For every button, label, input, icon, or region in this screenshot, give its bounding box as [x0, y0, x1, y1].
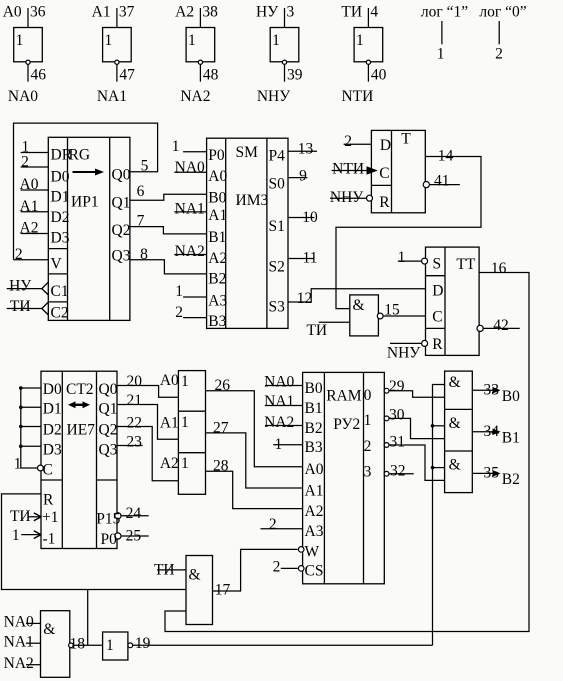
svg-text:1: 1 [356, 32, 364, 49]
svg-text:ТИ: ТИ [306, 322, 327, 339]
svg-text:A0: A0 [305, 461, 324, 478]
svg-text:21: 21 [127, 392, 143, 409]
svg-text:B2: B2 [208, 270, 226, 287]
svg-text:30: 30 [389, 407, 405, 424]
svg-text:P0: P0 [101, 531, 118, 548]
svg-text:A0: A0 [160, 372, 179, 389]
svg-text:B3: B3 [305, 439, 323, 456]
svg-text:NA0: NA0 [264, 373, 294, 390]
svg-text:S1: S1 [269, 218, 285, 235]
svg-text:C1: C1 [51, 283, 69, 300]
svg-text:ТИ: ТИ [10, 508, 31, 525]
svg-text:NA2: NA2 [175, 243, 205, 260]
svg-text:лог “0”: лог “0” [479, 3, 526, 20]
svg-text:&: & [449, 415, 461, 432]
svg-text:6: 6 [137, 183, 145, 200]
svg-text:P4: P4 [269, 147, 286, 164]
svg-text:1: 1 [398, 249, 406, 266]
svg-text:НУ: НУ [9, 278, 31, 295]
svg-text:ТИ: ТИ [341, 3, 362, 20]
svg-text:A2: A2 [208, 250, 227, 267]
svg-text:A2: A2 [305, 503, 324, 520]
svg-text:A2: A2 [160, 455, 179, 472]
svg-text:2: 2 [15, 246, 23, 263]
svg-text:A1: A1 [160, 415, 179, 432]
svg-text:НУ: НУ [256, 3, 278, 20]
svg-text:&: & [188, 566, 200, 583]
svg-text:1: 1 [106, 637, 114, 654]
svg-text:8: 8 [140, 246, 148, 263]
svg-text:1: 1 [12, 527, 20, 544]
svg-text:СТ2: СТ2 [66, 381, 94, 398]
svg-text:S0: S0 [269, 176, 286, 193]
svg-text:NA0: NA0 [4, 613, 34, 630]
svg-text:D: D [432, 282, 443, 299]
svg-text:37: 37 [119, 3, 135, 20]
svg-text:1: 1 [105, 32, 113, 49]
svg-text:1: 1 [364, 412, 372, 429]
svg-text:2: 2 [175, 304, 183, 321]
svg-text:S: S [433, 255, 442, 272]
svg-text:A0: A0 [3, 3, 22, 20]
svg-text:26: 26 [215, 377, 231, 394]
svg-text:V: V [51, 256, 63, 273]
svg-text:41: 41 [434, 172, 450, 189]
svg-text:A0: A0 [208, 168, 227, 185]
svg-text:D2: D2 [51, 209, 70, 226]
svg-text:P0: P0 [208, 147, 225, 164]
svg-text:Q0: Q0 [99, 381, 118, 398]
svg-text:&: & [449, 457, 461, 474]
svg-text:1: 1 [172, 138, 180, 155]
svg-text:Q1: Q1 [99, 400, 118, 417]
svg-text:15: 15 [384, 302, 400, 319]
svg-text:NA1: NA1 [97, 88, 127, 105]
svg-text:A1: A1 [92, 3, 111, 20]
svg-text:11: 11 [303, 249, 318, 266]
svg-text:ИМ3: ИМ3 [236, 192, 269, 209]
svg-text:B0: B0 [305, 380, 323, 397]
svg-text:D3: D3 [51, 230, 70, 247]
svg-text:W: W [305, 544, 320, 561]
svg-text:Q2: Q2 [99, 422, 118, 439]
svg-text:25: 25 [126, 528, 142, 545]
svg-text:20: 20 [127, 373, 143, 390]
svg-text:10: 10 [302, 209, 318, 226]
svg-text:46: 46 [31, 67, 47, 84]
svg-text:A1: A1 [208, 207, 227, 224]
svg-text:18: 18 [70, 636, 86, 653]
svg-text:1: 1 [181, 373, 189, 390]
svg-text:РУ2: РУ2 [333, 416, 360, 433]
svg-text:NНУ: NНУ [387, 345, 420, 362]
svg-text:ТИ: ТИ [154, 561, 175, 578]
svg-text:17: 17 [215, 581, 231, 598]
svg-text:B1: B1 [502, 430, 520, 447]
svg-text:13: 13 [298, 140, 314, 157]
svg-text:1: 1 [181, 414, 189, 431]
svg-text:B0: B0 [502, 388, 520, 405]
svg-text:A3: A3 [208, 292, 227, 309]
svg-text:P15: P15 [96, 511, 120, 528]
svg-text:NA0: NA0 [175, 159, 205, 176]
svg-text:27: 27 [213, 419, 229, 436]
svg-text:3: 3 [287, 3, 295, 20]
svg-text:B0: B0 [208, 189, 226, 206]
svg-text:ТИ: ТИ [10, 298, 31, 315]
svg-text:22: 22 [127, 415, 143, 432]
svg-text:NA1: NA1 [4, 634, 34, 651]
svg-text:Q3: Q3 [112, 248, 131, 265]
svg-text:1: 1 [275, 436, 283, 453]
svg-text:NТИ: NТИ [332, 161, 364, 178]
svg-text:S3: S3 [269, 299, 286, 316]
svg-text:NA2: NA2 [4, 655, 34, 672]
svg-text:1: 1 [181, 455, 189, 472]
svg-text:C: C [379, 165, 389, 182]
svg-text:5: 5 [141, 157, 149, 174]
svg-text:S2: S2 [269, 259, 285, 276]
svg-text:42: 42 [493, 317, 509, 334]
svg-text:40: 40 [371, 67, 387, 84]
svg-text:2: 2 [269, 516, 277, 533]
svg-text:12: 12 [297, 290, 313, 307]
svg-text:1: 1 [188, 32, 196, 49]
svg-text:SM: SM [236, 144, 259, 161]
svg-text:&: & [43, 621, 55, 638]
svg-text:Q0: Q0 [112, 167, 131, 184]
svg-text:B3: B3 [208, 313, 226, 330]
svg-text:B1: B1 [305, 400, 323, 417]
svg-text:A0: A0 [20, 176, 39, 193]
svg-text:D1: D1 [43, 400, 62, 417]
svg-text:ИР1: ИР1 [71, 194, 99, 211]
svg-text:&: & [449, 374, 461, 391]
svg-text:1: 1 [16, 32, 24, 49]
svg-text:2: 2 [21, 154, 29, 171]
svg-text:19: 19 [135, 635, 151, 652]
svg-text:R: R [43, 492, 54, 509]
svg-text:23: 23 [126, 433, 142, 450]
svg-text:4: 4 [370, 3, 378, 20]
svg-text:R: R [379, 194, 390, 211]
svg-text:3: 3 [364, 464, 372, 481]
svg-text:16: 16 [491, 260, 507, 277]
svg-text:C2: C2 [51, 305, 69, 322]
svg-text:Q3: Q3 [99, 442, 118, 459]
svg-text:&: & [352, 297, 364, 314]
svg-text:A1: A1 [20, 198, 39, 215]
svg-text:1: 1 [14, 456, 22, 473]
svg-text:0: 0 [364, 387, 372, 404]
svg-text:1: 1 [272, 32, 280, 49]
svg-text:D2: D2 [43, 422, 62, 439]
svg-text:35: 35 [483, 465, 499, 482]
svg-text:D1: D1 [51, 189, 70, 206]
svg-text:лог “1”: лог “1” [421, 3, 468, 20]
svg-text:A2: A2 [175, 3, 194, 20]
svg-text:R: R [432, 336, 443, 353]
svg-text:1: 1 [437, 46, 445, 63]
svg-text:A1: A1 [305, 482, 324, 499]
svg-text:39: 39 [287, 67, 303, 84]
svg-text:36: 36 [30, 3, 46, 20]
svg-text:ИЕ7: ИЕ7 [67, 422, 96, 439]
svg-text:1: 1 [175, 283, 183, 300]
svg-text:14: 14 [438, 148, 454, 165]
svg-text:D0: D0 [51, 169, 70, 186]
svg-text:38: 38 [202, 3, 218, 20]
svg-text:TT: TT [456, 256, 475, 273]
svg-text:B2: B2 [502, 471, 520, 488]
svg-text:34: 34 [483, 423, 499, 440]
svg-text:T: T [401, 131, 411, 148]
svg-text:NA2: NA2 [180, 88, 210, 105]
svg-text:29: 29 [389, 378, 405, 395]
svg-text:2: 2 [495, 46, 503, 63]
svg-text:9: 9 [299, 168, 307, 185]
svg-text:B2: B2 [305, 420, 323, 437]
svg-text:NA1: NA1 [175, 200, 205, 217]
svg-text:47: 47 [119, 67, 135, 84]
svg-text:Q2: Q2 [112, 222, 131, 239]
svg-text:B1: B1 [208, 229, 226, 246]
svg-text:NТИ: NТИ [341, 88, 373, 105]
svg-text:2: 2 [344, 133, 352, 150]
svg-text:A2: A2 [20, 220, 39, 237]
svg-text:CS: CS [305, 563, 324, 580]
svg-text:32: 32 [390, 462, 406, 479]
svg-text:D3: D3 [43, 442, 62, 459]
svg-text:RG: RG [69, 147, 91, 164]
svg-text:-1: -1 [43, 531, 56, 548]
svg-text:A3: A3 [305, 523, 324, 540]
svg-text:NA2: NA2 [264, 414, 294, 431]
svg-text:2: 2 [364, 438, 372, 455]
svg-text:D0: D0 [43, 381, 62, 398]
svg-text:D: D [380, 137, 391, 154]
svg-text:C: C [43, 462, 53, 479]
svg-text:48: 48 [203, 67, 219, 84]
svg-text:31: 31 [389, 434, 405, 451]
svg-text:7: 7 [137, 213, 145, 230]
svg-text:2: 2 [273, 558, 281, 575]
svg-text:28: 28 [213, 458, 229, 475]
svg-text:NНУ: NНУ [330, 189, 363, 206]
svg-text:NA1: NA1 [264, 393, 294, 410]
svg-text:RAM: RAM [326, 388, 362, 405]
svg-text:NНУ: NНУ [257, 88, 290, 105]
svg-text:+1: +1 [42, 509, 59, 526]
svg-text:33: 33 [483, 382, 499, 399]
svg-text:24: 24 [126, 505, 142, 522]
svg-text:Q1: Q1 [112, 195, 131, 212]
svg-text:NA0: NA0 [8, 88, 38, 105]
svg-text:C: C [432, 308, 442, 325]
